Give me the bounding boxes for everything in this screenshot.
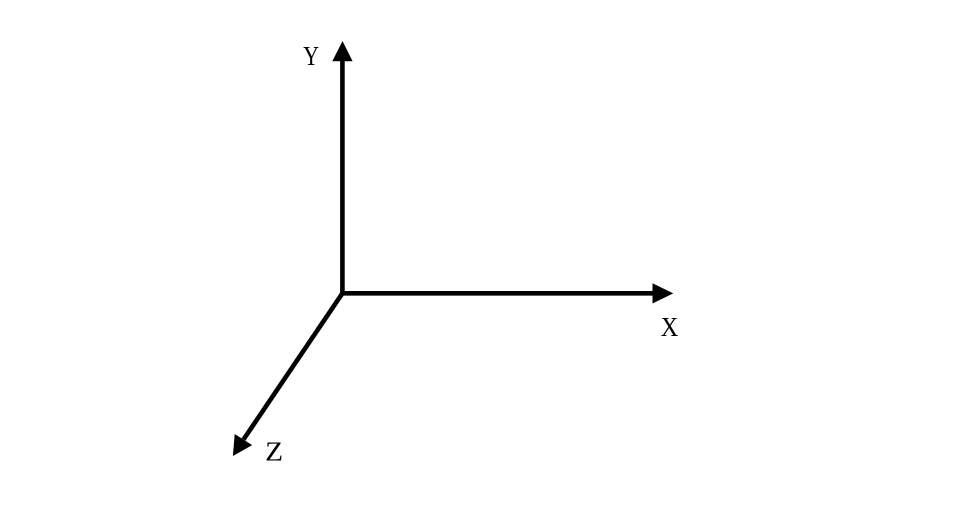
X axis (342, 283, 673, 303)
svg-text:X: X (661, 312, 679, 342)
svg-text:Y: Y (303, 41, 319, 71)
Y axis (332, 41, 352, 293)
svg-text:Z: Z (265, 437, 283, 467)
Z axis (233, 293, 343, 456)
